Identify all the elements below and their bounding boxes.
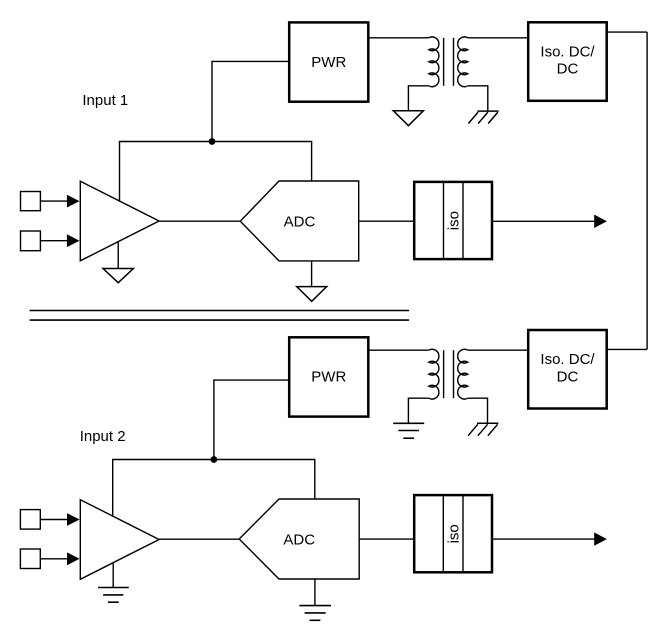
svg-text:iso: iso <box>446 211 463 230</box>
transformer T1 secondary winding <box>458 37 468 87</box>
ADC U1 <box>240 181 358 261</box>
input terminal square J2 <box>21 231 41 251</box>
wire iso1 output with arrow <box>492 215 607 228</box>
isolation barrier separator lines <box>30 311 410 321</box>
input terminal square J4 <box>20 549 40 569</box>
wire T2 secondary to Iso DC/DC 2 <box>468 349 528 351</box>
svg-text:Iso. DC/: Iso. DC/ <box>540 43 595 60</box>
Iso DC/DC converter U3 <box>528 22 607 101</box>
wire supply rail ch1 <box>120 142 312 201</box>
node junction dot ch1 <box>209 138 216 145</box>
earth ground at T2 primary <box>393 423 424 438</box>
digital isolator iso1 <box>414 181 492 260</box>
label Input 2 <box>80 428 126 445</box>
node junction dot ch2 <box>211 456 218 463</box>
wire PWR2 left to junction <box>214 380 289 459</box>
earth ground at amp A2 <box>98 563 129 603</box>
Iso DC/DC converter U6 <box>528 330 607 409</box>
wire T2 primary bottom to earth ground <box>408 398 428 423</box>
svg-text:Iso. DC/: Iso. DC/ <box>540 351 595 368</box>
ADC U4 <box>239 499 359 579</box>
svg-text:ADC: ADC <box>283 531 315 548</box>
transformer T1 core <box>444 38 454 86</box>
ground (signal) at ADC U1 <box>297 261 327 301</box>
transformer T2 secondary winding <box>458 349 468 399</box>
op-amp A2 <box>80 500 159 580</box>
wire T1 secondary to Iso DC/DC 1 <box>468 37 528 39</box>
op-amp A1 <box>80 181 159 261</box>
input terminal square J1 <box>21 192 41 211</box>
wire amp A2 output to ADC2 <box>159 538 239 540</box>
wire PWR2 to transformer T2 <box>368 349 428 351</box>
wire ADC1 to iso1 <box>359 220 415 222</box>
wire PWR1 to transformer T1 <box>368 37 428 39</box>
wire supply rail ch2 <box>113 460 315 516</box>
svg-text:DC: DC <box>557 61 579 78</box>
transformer T2 core <box>444 350 454 398</box>
wire J4 to amp with arrow <box>40 552 79 565</box>
wire T2 secondary bottom to chassis ground <box>468 398 488 423</box>
svg-text:iso: iso <box>445 524 462 543</box>
svg-text:ADC: ADC <box>284 213 316 230</box>
wire J2 to amp with arrow <box>40 234 79 247</box>
chassis ground at T1 secondary <box>468 111 498 123</box>
svg-text:DC: DC <box>557 368 579 385</box>
ground (signal) at T1 primary <box>393 111 423 126</box>
input terminal square J3 <box>20 510 40 529</box>
label Input 1 <box>82 92 128 109</box>
PWR block U2 <box>289 22 368 101</box>
wire amp A1 output to ADC1 <box>159 220 240 222</box>
transformer T2 primary winding <box>429 349 439 399</box>
wire J1 to amp with arrow <box>40 195 79 208</box>
wire PWR1 left to junction <box>212 61 289 141</box>
chassis ground at T2 secondary <box>468 423 498 435</box>
ground (signal) at amp A1 <box>103 242 133 283</box>
wire iso2 output with arrow <box>492 532 607 545</box>
svg-text:Input 1: Input 1 <box>82 92 128 109</box>
wire T1 primary bottom to ground <box>408 86 428 111</box>
svg-text:PWR: PWR <box>311 54 346 71</box>
wire interconnect bus vertical <box>646 32 648 349</box>
wire bus to Iso DC/DC 2 <box>607 348 647 350</box>
wire T1 secondary bottom to chassis ground <box>468 86 488 111</box>
wire J3 to amp with arrow <box>40 513 79 526</box>
wire ADC2 to iso2 <box>359 538 414 540</box>
digital isolator iso2 <box>414 494 492 573</box>
earth ground at ADC U4 <box>299 579 331 620</box>
PWR block U5 <box>289 337 368 416</box>
svg-text:Input 2: Input 2 <box>80 428 126 445</box>
transformer T1 primary winding <box>429 37 439 87</box>
svg-text:PWR: PWR <box>311 369 346 386</box>
wire Iso DC/DC 1 output to bus <box>607 31 647 33</box>
